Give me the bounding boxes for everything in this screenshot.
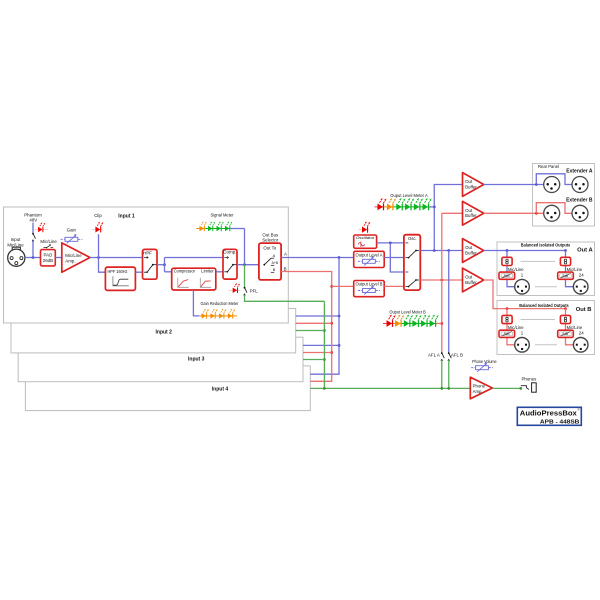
svg-text:Comp.: Comp. (223, 250, 236, 255)
op-amp out buffer 4 (463, 268, 484, 292)
phones jack (532, 383, 537, 392)
gain reduction meter wire (199, 315, 237, 317)
svg-text:Ouput Level Meter A: Ouput Level Meter A (390, 193, 427, 198)
transformer out A 1 (502, 257, 512, 265)
signal meter wire segments (196, 228, 206, 230)
op-amp out buffer 2 (463, 201, 484, 225)
wire A bus horizontal (selector to output level A) (281, 257, 354, 259)
node PFL bus input2 junction (323, 329, 326, 332)
LED signal meter 3 green (217, 222, 224, 231)
svg-text:Output Level B: Output Level B (356, 282, 383, 287)
Mic/Line pad switch glyph (44, 245, 54, 249)
LED meter A 2 orange (387, 199, 395, 211)
svg-text:A: A (284, 252, 287, 257)
transformer out A 24 (560, 257, 570, 265)
wire B riser to buffer 2 (442, 213, 463, 353)
svg-text:AFL A: AFL A (428, 352, 440, 357)
PFL switch (244, 287, 247, 296)
node AFL A green junction (440, 387, 443, 390)
wire junction down to HPF160 box (99, 258, 106, 273)
balanced isolated outputs B box (497, 301, 595, 355)
wire A bus vertical (310, 258, 339, 375)
svg-text:Mic/Line: Mic/Line (40, 239, 57, 244)
wire input3 A (303, 344, 339, 346)
wire AFL A green drop (441, 360, 443, 388)
wire input3 PFL (303, 359, 324, 361)
node A bus input3 junction (338, 344, 341, 347)
node oscillator split junction (389, 242, 392, 245)
node A bus input2 junction (338, 315, 341, 318)
output level A box (354, 251, 385, 267)
wire AFL B drop (448, 251, 450, 354)
transformer out B 24 (560, 315, 570, 323)
svg-text:Out To: Out To (263, 246, 276, 251)
wire out A column2 drop (566, 251, 574, 287)
phantom power switch (32, 233, 35, 242)
input 3 channel box (18, 337, 303, 382)
phone amp U3 (470, 377, 492, 399)
LED meter A 6 green (423, 199, 431, 211)
svg-text:Extender B: Extender B (566, 197, 593, 203)
extender B XLR 1 (544, 205, 560, 221)
node meter B junction (440, 322, 443, 325)
svg-text:Selector: Selector (262, 238, 279, 243)
HPF bypass switch box (143, 249, 158, 279)
wire input2 A (296, 315, 339, 317)
wire A riser to buffer 1 (434, 185, 462, 251)
wire B pole output to buffer 4 (420, 279, 462, 281)
LED gain reduction 4 (228, 309, 235, 318)
svg-text:PFL: PFL (250, 288, 259, 293)
out bus selector box (259, 243, 281, 280)
pad -5dB out B 24 (558, 330, 574, 337)
svg-text:HPF 160Hz: HPF 160Hz (108, 269, 128, 274)
wire HPF160 to HPF switch (135, 271, 142, 273)
svg-text:AudioPressBox: AudioPressBox (520, 411, 577, 418)
LED gain reduction 2 (210, 309, 217, 318)
pad -5dB out A 1 (499, 272, 515, 279)
wire buffer3 to out A columns (484, 250, 566, 252)
node B bus input2 junction (330, 322, 333, 325)
svg-text:Output Level A: Output Level A (356, 253, 383, 258)
LED signal meter 4 green (225, 222, 232, 231)
node signal meter / PFL junction (243, 263, 246, 266)
svg-text:Rear Panel: Rear Panel (538, 164, 559, 169)
wire PAD to amp (55, 257, 62, 259)
wire PFL bus vertical (323, 301, 325, 388)
wire comp switch to out bus selector (237, 264, 259, 266)
wire AFL B green drop (448, 360, 450, 388)
wire phone amp to jack (492, 387, 520, 389)
svg-text:A+B: A+B (272, 261, 279, 265)
input 1 channel box (4, 207, 289, 323)
LED oscillator stub line (359, 229, 370, 231)
wire output level B to switch (384, 285, 404, 287)
svg-text:Mic/Line: Mic/Line (567, 325, 583, 330)
svg-text:Mic/Line: Mic/Line (508, 325, 524, 330)
compressor/limiter box (172, 268, 216, 290)
svg-text:HPF: HPF (143, 251, 152, 256)
svg-text:Out A: Out A (577, 248, 593, 254)
LED meter A 1 red (377, 199, 385, 211)
svg-text:Input 2: Input 2 (156, 330, 173, 336)
svg-text:24: 24 (579, 273, 584, 278)
LED PFL stub line (229, 289, 241, 291)
wire amp to HPF switch (90, 257, 143, 259)
phone volume potentiometer (471, 363, 493, 372)
extender B XLR 2 (572, 205, 588, 221)
wire bypass to comp switch (165, 257, 224, 259)
svg-text:Limiter: Limiter (201, 269, 214, 274)
node out B column2 junction (564, 307, 567, 310)
svg-text:B: B (273, 268, 276, 272)
node AFL B green junction (447, 387, 450, 390)
wire extender A bridge (536, 174, 572, 185)
node B vertical junction (440, 279, 443, 282)
out A XLR 1 (515, 279, 530, 294)
output level B potentiometer (358, 286, 380, 295)
ellipsis out A top (521, 260, 556, 262)
PAD 26dB box (41, 250, 56, 266)
pad -5dB out B 1 (499, 330, 515, 337)
wire extender B bridge (536, 203, 572, 214)
svg-text:Extender A: Extender A (566, 169, 593, 175)
node green bus junction (323, 387, 326, 390)
node out A column1 junction (506, 249, 509, 252)
LED meter B 4 green (412, 315, 420, 327)
svg-text:AFL B: AFL B (451, 352, 463, 357)
wire main PFL green bus to phone amp (310, 387, 470, 389)
out B XLR 24 (573, 338, 588, 353)
wire input2 PFL (296, 330, 325, 332)
svg-text:PAD: PAD (44, 253, 53, 258)
svg-text:Input 1: Input 1 (118, 213, 135, 219)
node out B column1 junction (506, 307, 509, 310)
comp bypass switch box (223, 249, 237, 279)
out B XLR 1 (515, 338, 530, 353)
svg-text:Ouput Level Meter B: Ouput Level Meter B (389, 309, 425, 314)
svg-text:Amp.: Amp. (473, 389, 483, 394)
wire oscillator to lower switch contact (390, 243, 404, 272)
input XLR connector J1 (8, 247, 25, 266)
oscillator box U2 (354, 235, 377, 248)
svg-text:Clip: Clip (94, 213, 102, 218)
LED meter A 4 green (405, 199, 413, 211)
extender A XLR 1 (544, 177, 560, 193)
wire input2 B (296, 322, 332, 324)
svg-text:Mic/Line: Mic/Line (508, 267, 524, 272)
wire compressor box to gain reduction meter (193, 290, 199, 316)
wire compressor to comp switch (216, 271, 223, 273)
svg-text:Oscillator: Oscillator (356, 235, 375, 240)
LED gain reduction 3 (219, 309, 226, 318)
LED meter B 3 green (404, 315, 412, 327)
node extender B junction (535, 212, 538, 215)
LED PFL (233, 284, 240, 293)
LED meter B 6 green (430, 315, 438, 327)
svg-text:APB - 448SB: APB - 448SB (540, 420, 580, 426)
svg-text:Mic/Line: Mic/Line (65, 253, 82, 258)
LED meter B 5 green (421, 315, 429, 327)
svg-text:Gain Reduction Meter: Gain Reduction Meter (201, 301, 239, 306)
wire buffer1 to extender A (484, 184, 544, 186)
AFL A switch (441, 352, 444, 361)
wire PFL green lower to bus (245, 295, 325, 302)
wire clip LED stub (98, 234, 100, 257)
svg-text:26dB: 26dB (43, 258, 53, 263)
pad -5dB out A 24 (558, 272, 574, 279)
AFL B switch (448, 352, 451, 361)
svg-text:Phones: Phones (521, 376, 537, 381)
LED meter B 2 orange (395, 315, 403, 327)
ellipsis out A bottom (535, 286, 557, 288)
svg-text:Balanced Isolated Outputs: Balanced Isolated Outputs (519, 303, 569, 308)
oscillator insert switch box (404, 235, 420, 290)
wire HPF switch out to junction (157, 264, 165, 266)
op-amp out buffer 3 (463, 239, 484, 263)
input 4 channel box (25, 366, 310, 411)
LED oscillator (362, 222, 370, 233)
node clip junction (97, 256, 100, 259)
LED phantom (35, 229, 49, 231)
extender A XLR 2 (572, 177, 588, 193)
svg-text:Mic/Line: Mic/Line (567, 267, 583, 272)
transformer out B 1 (502, 315, 512, 323)
AudioPressBox logo (517, 407, 581, 425)
node B bus input3 junction (330, 351, 333, 354)
input 2 channel box (11, 309, 296, 353)
output level A potentiometer (358, 257, 380, 266)
svg-text:Compressor: Compressor (174, 269, 195, 274)
LED clip (92, 229, 104, 231)
wire XLR to PAD (25, 257, 41, 259)
svg-text:Out B: Out B (576, 307, 592, 313)
node HPF out junction (163, 263, 166, 266)
node AFL B tap junction (447, 249, 450, 252)
phones plug glyph (521, 386, 529, 390)
node meter A junction (433, 206, 436, 209)
LED meter A 5 green (414, 199, 422, 211)
LED gain reduction 1 (202, 309, 209, 318)
wire buffer2 to extender B (484, 212, 544, 214)
svg-text:Mic/Line: Mic/Line (7, 242, 24, 247)
wire out B column2 drop (566, 309, 574, 345)
wire out B column1 drop (507, 309, 515, 345)
LED signal meter 2 green (208, 222, 215, 231)
node A vertical junction (433, 249, 436, 252)
HPF 160Hz filter box (105, 267, 135, 290)
node extender A junction (535, 183, 538, 186)
ellipsis out B bottom (535, 344, 557, 346)
wire PFL tap green upper (244, 265, 246, 287)
LED meter A 3 green (396, 199, 404, 211)
wire signal meter vertical (244, 229, 246, 265)
output level meter B wire segments (383, 323, 392, 325)
svg-text:Input 4: Input 4 (212, 387, 229, 393)
wire to compressor box (165, 271, 172, 273)
output level meter A wire segments (375, 206, 384, 208)
gain potentiometer (61, 235, 83, 244)
rear panel box (533, 164, 595, 227)
wire B bus from selector (281, 272, 332, 382)
svg-text:Signal Meter: Signal Meter (211, 212, 234, 217)
node PFL bus input3 junction (323, 358, 326, 361)
output level B box (354, 281, 385, 297)
mic/line amp U1 (62, 243, 90, 272)
op-amp out buffer 1 (463, 173, 484, 197)
wire out A column1 drop (507, 251, 515, 287)
svg-text:Phone: Phone (473, 384, 486, 389)
node B bus output level junction (330, 285, 333, 288)
svg-text:Osc.: Osc. (408, 236, 417, 241)
node A bus junction (338, 256, 341, 259)
wire A pole output to buffer 3 (420, 250, 462, 252)
svg-text:48V: 48V (29, 217, 37, 222)
svg-text:A: A (273, 254, 276, 258)
LED signal meter 1 orange (200, 222, 207, 231)
balanced isolated outputs A box (497, 242, 595, 296)
wire phantom branch lower (32, 241, 34, 258)
wire junction vertical (164, 258, 166, 272)
node out A column2 junction (564, 249, 567, 252)
svg-text:Balanced Isolated Outputs: Balanced Isolated Outputs (521, 242, 571, 247)
wire phantom branch upper (32, 223, 34, 233)
wire buffer4 to out B columns (484, 280, 566, 309)
out A XLR 24 (573, 279, 588, 294)
wire oscillator output (377, 242, 404, 244)
svg-text:Amp.: Amp. (65, 258, 75, 263)
node phantom junction (32, 256, 35, 259)
LED meter B 1 red (387, 315, 395, 327)
svg-text:Input 3: Input 3 (188, 357, 205, 363)
node phones jack junction (519, 387, 522, 390)
svg-text:24: 24 (579, 331, 584, 336)
ellipsis out B top (521, 319, 556, 321)
wire B bus to output level B (332, 285, 354, 287)
svg-text:Gain: Gain (67, 227, 77, 232)
wire output level A to switch (384, 257, 404, 259)
wire input3 B (303, 352, 332, 354)
